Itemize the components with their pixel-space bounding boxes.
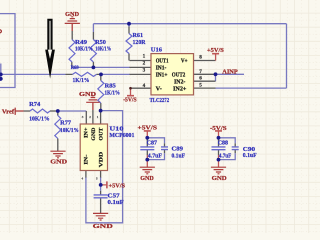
svg-text:4: 4	[143, 83, 146, 89]
svg-text:IN1+: IN1+	[156, 71, 168, 78]
svg-text:Vref: Vref	[2, 109, 15, 116]
svg-text:MCP6001: MCP6001	[109, 132, 134, 139]
svg-text:VDD: VDD	[98, 152, 104, 168]
svg-text:10K/1%: 10K/1%	[75, 46, 93, 53]
svg-text:R85: R85	[105, 82, 116, 89]
svg-text:TLC2272: TLC2272	[150, 97, 170, 104]
svg-text:1K/1%: 1K/1%	[105, 89, 121, 96]
svg-text:GND: GND	[79, 91, 96, 98]
svg-text:R77: R77	[60, 119, 72, 126]
svg-text:C88: C88	[218, 139, 228, 146]
svg-text:0.1uF: 0.1uF	[172, 152, 186, 159]
svg-text:4.7uF: 4.7uF	[148, 153, 162, 160]
svg-text:IN2-: IN2-	[174, 78, 185, 85]
svg-text:C87: C87	[147, 140, 158, 147]
svg-text:AINP: AINP	[222, 69, 237, 76]
svg-text:2: 2	[143, 61, 146, 67]
svg-text:0.1uF: 0.1uF	[108, 199, 124, 206]
svg-text:R69: R69	[71, 66, 79, 71]
svg-text:IN2+: IN2+	[173, 86, 187, 93]
svg-text:GND: GND	[140, 175, 154, 182]
svg-text:V+: V+	[181, 58, 188, 65]
svg-text:IN+: IN+	[84, 128, 90, 139]
svg-text:5: 5	[199, 82, 202, 88]
svg-text:10K/1%: 10K/1%	[29, 116, 50, 123]
svg-text:6: 6	[199, 76, 202, 82]
svg-text:7: 7	[199, 69, 202, 75]
svg-text:GND: GND	[65, 11, 79, 18]
svg-text:R74: R74	[29, 101, 41, 108]
svg-text:0.1uF: 0.1uF	[243, 152, 257, 159]
svg-text:GND: GND	[50, 158, 67, 165]
svg-text:1: 1	[143, 54, 146, 60]
svg-text:V-: V-	[156, 86, 162, 93]
svg-text:3: 3	[143, 68, 146, 74]
svg-text:+5V/S: +5V/S	[138, 125, 158, 132]
svg-text:U16: U16	[151, 46, 163, 53]
svg-text:1K/1%: 1K/1%	[73, 77, 90, 84]
svg-text:OUT2: OUT2	[172, 71, 186, 78]
svg-text:-5V/S: -5V/S	[210, 125, 227, 132]
svg-text:120R: 120R	[133, 39, 146, 46]
svg-text:GND: GND	[212, 175, 227, 182]
svg-text:+5V/S: +5V/S	[207, 47, 224, 54]
svg-text:OUT: OUT	[98, 127, 104, 140]
svg-text:+5V/S: +5V/S	[109, 183, 126, 190]
svg-text:-5V/S: -5V/S	[123, 97, 137, 104]
svg-text:GND: GND	[93, 223, 114, 230]
svg-text:GND: GND	[91, 128, 97, 141]
svg-text:8: 8	[199, 54, 202, 60]
svg-text:4.7uF: 4.7uF	[219, 153, 231, 160]
svg-text:IN-: IN-	[84, 154, 90, 164]
svg-text:10K/1%: 10K/1%	[60, 127, 79, 134]
svg-text:10K/1%: 10K/1%	[95, 46, 111, 53]
